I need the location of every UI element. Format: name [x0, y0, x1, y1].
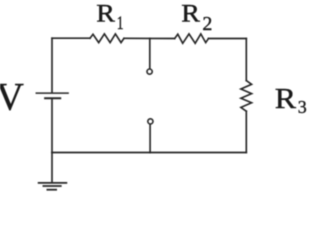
wire R1 to node A — [124, 37, 150, 39]
terminal lower open circle — [148, 119, 153, 124]
ground bar 3 — [47, 189, 56, 191]
wire middle stub lower — [149, 124, 151, 152]
resistor R1 — [90, 34, 124, 43]
resistor R2 — [175, 34, 209, 43]
svg-text:R: R — [275, 82, 297, 114]
wire top-left segment — [52, 37, 90, 39]
ground bar 1 — [39, 182, 67, 184]
battery V plate long — [36, 92, 68, 94]
svg-text:1: 1 — [117, 12, 124, 34]
wire bottom left segment — [52, 152, 150, 154]
wire left side upper — [51, 38, 53, 92]
wire right side bottom — [245, 111, 247, 152]
wire node A to R2 — [150, 37, 175, 39]
wire left side lower — [51, 99, 53, 182]
battery V plate short — [45, 97, 60, 99]
wire bottom right segment — [150, 152, 246, 154]
wire middle stub upper — [149, 38, 151, 68]
svg-text:2: 2 — [202, 13, 212, 35]
resistor R3 — [241, 81, 252, 112]
svg-text:V: V — [0, 75, 24, 118]
wire R2 to top-right corner — [209, 38, 247, 40]
ground bar 2 — [43, 185, 60, 187]
svg-text:3: 3 — [298, 97, 307, 117]
wire right side top — [245, 39, 247, 81]
svg-text:R: R — [96, 0, 115, 27]
terminal upper open circle — [147, 69, 152, 74]
svg-text:R: R — [181, 0, 200, 27]
